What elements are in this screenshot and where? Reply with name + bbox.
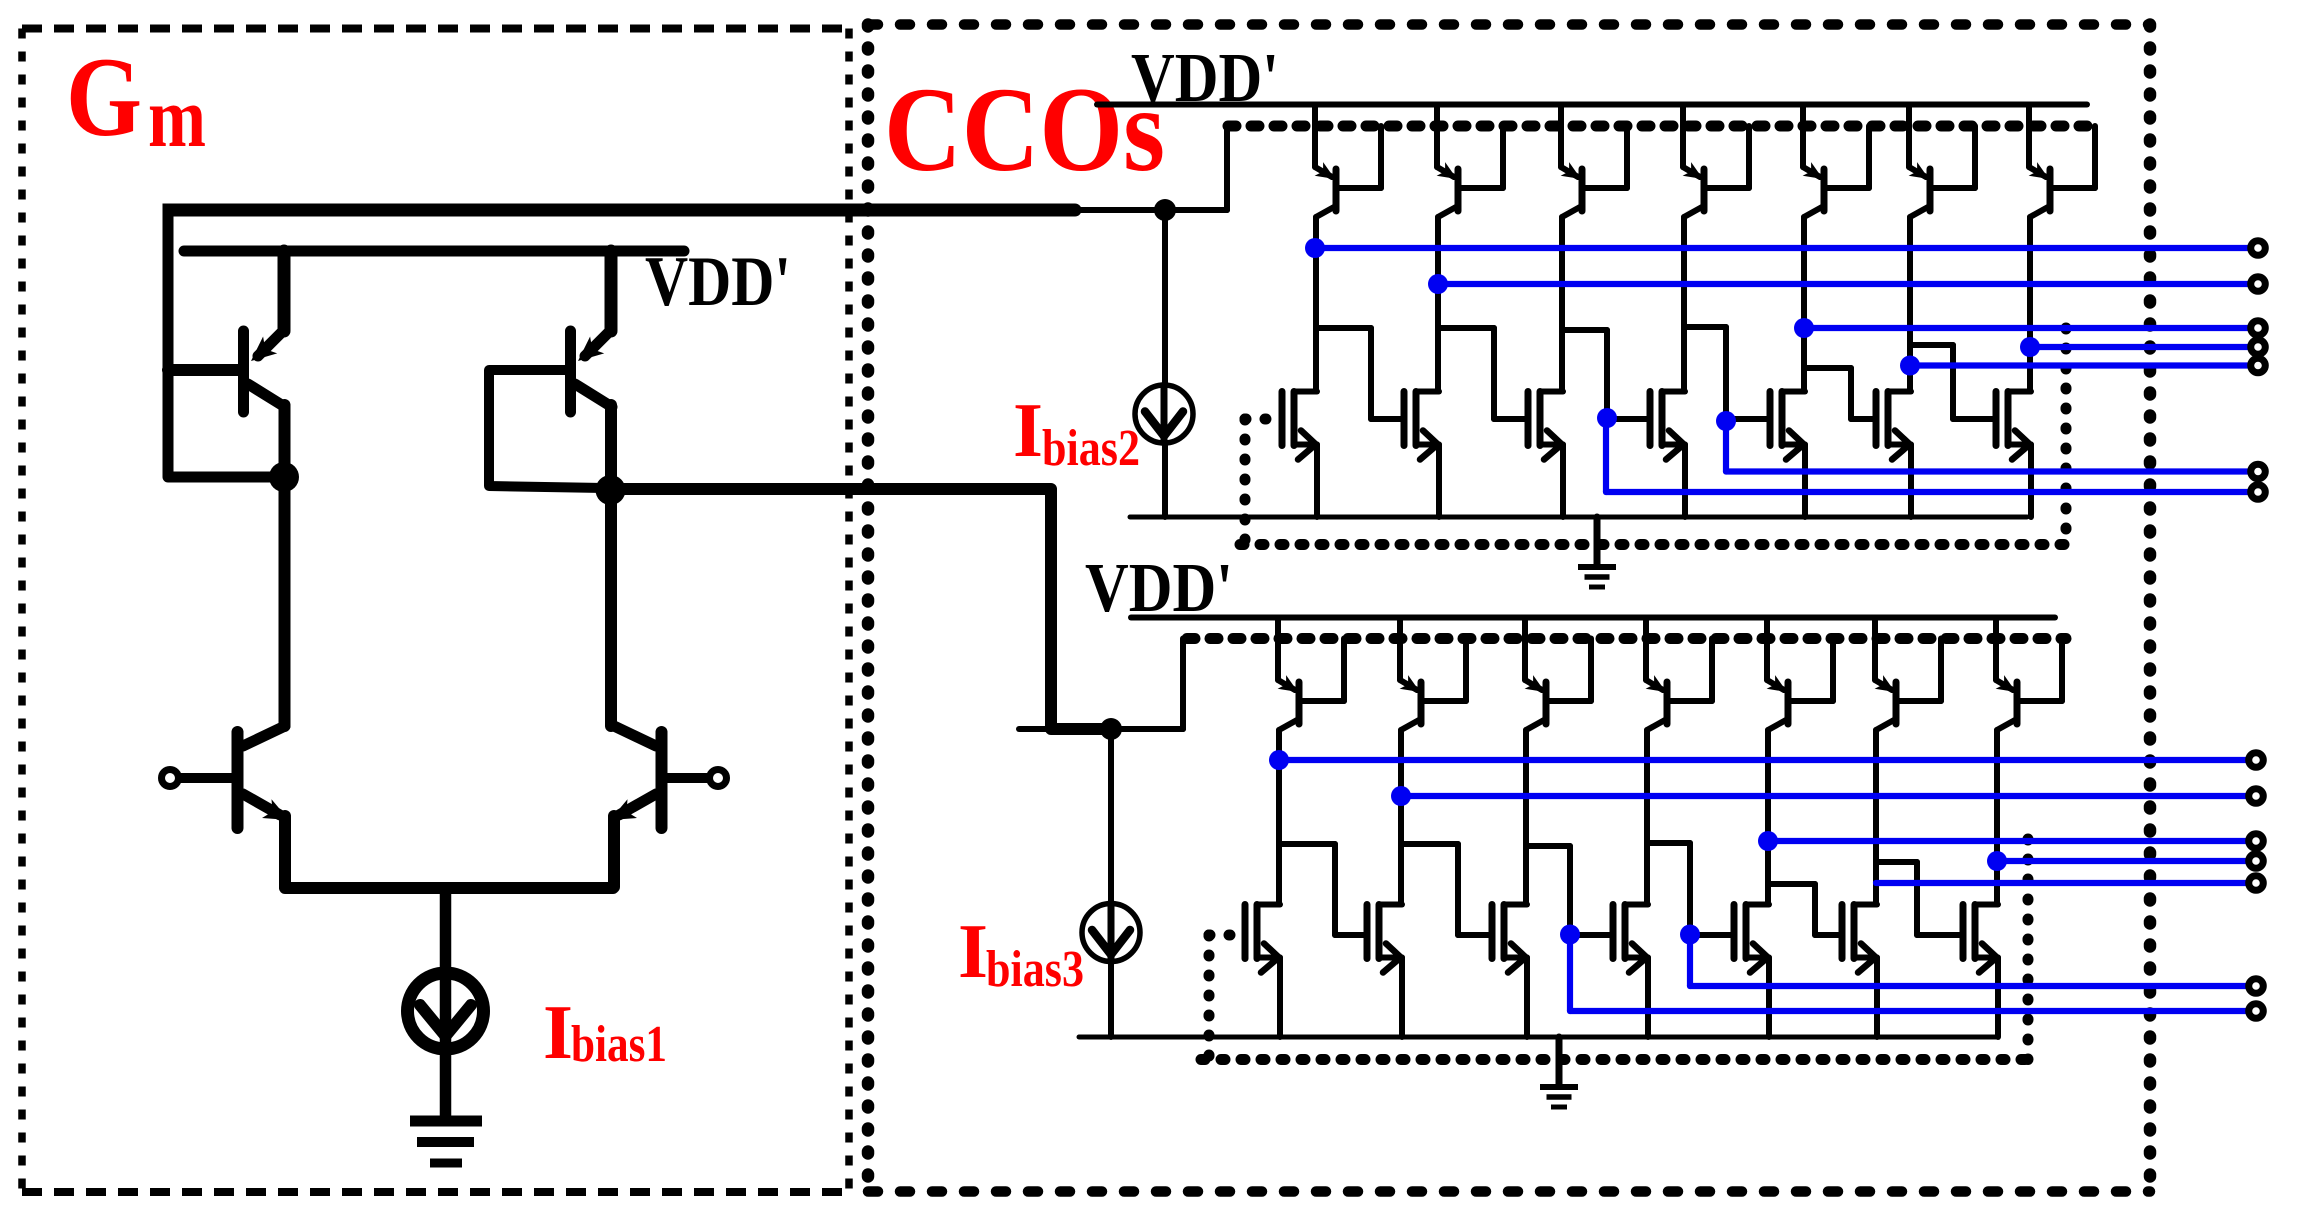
wire output 2 (blue, CCO1) — [1438, 281, 2249, 287]
output terminal 1 (CCO2) — [2249, 753, 2264, 768]
wire output riser (blue, CCO2) — [1687, 935, 1693, 986]
transistor Q2 (PNP, right mirror) — [489, 251, 612, 491]
wire stage 1 output jog (CCO1) — [1316, 328, 1371, 419]
label Ibias2 — [1013, 387, 1140, 477]
transistor PCCO17 (PNP stage 7) — [2029, 105, 2095, 392]
current source Ibias (CCO2) — [1082, 904, 1140, 962]
wire gate link stage 6 (CCO2) — [1815, 932, 1842, 938]
wire node C down to Q4 — [605, 490, 617, 726]
transistor PCCO26 (PNP stage 6) — [1875, 618, 1941, 905]
dashed cell border left (CCO2) — [1204, 935, 1215, 1060]
transistor NCCO11 (NMOS stage 1) — [1282, 392, 1317, 518]
wire gate link stage 4 (CCO1) — [1607, 416, 1650, 422]
wire ground rail (CCO1) — [1130, 515, 2027, 520]
transistor NCCO22 (NMOS stage 2) — [1367, 905, 1402, 1038]
transistor PCCO14 (PNP stage 4) — [1683, 105, 1749, 392]
wire gate link stage 4 (CCO2) — [1570, 932, 1613, 938]
svg-text:CCOs: CCOs — [884, 63, 1165, 197]
transistor Q1 (PNP, left mirror) — [168, 251, 285, 477]
CCOs block dashed box — [868, 25, 2150, 1192]
dashed cell border bottom (CCO2) — [1201, 1054, 2028, 1065]
transistor NCCO14 (NMOS stage 4) — [1650, 392, 1685, 518]
wire output 1 (blue, CCO2) — [1279, 757, 2247, 763]
node tap 1 (blue, CCO1) — [1305, 238, 1325, 258]
input terminal IN- — [710, 770, 727, 787]
svg-text:bias1: bias1 — [571, 1016, 667, 1073]
svg-text:I: I — [958, 908, 988, 994]
wire output 3 (blue, CCO2) — [1768, 838, 2247, 844]
wire VDD rail (Gm) — [184, 246, 684, 257]
svg-text:I: I — [543, 989, 573, 1075]
transistor NCCO12 (NMOS stage 2) — [1404, 392, 1439, 518]
svg-text:bias3: bias3 — [986, 941, 1084, 998]
transistor PCCO23 (PNP stage 3) — [1525, 618, 1591, 905]
wire gate link stage 5 (CCO2) — [1690, 932, 1734, 938]
node B junction (Q1 collector/base) — [269, 462, 299, 492]
wire stage 4 output jog (CCO1) — [1684, 327, 1726, 419]
wire stage 5 output jog (CCO2) — [1768, 884, 1815, 935]
node tap 4 (blue, CCO1) — [1716, 411, 1736, 431]
dashed cell border right (CCO1) — [2061, 328, 2072, 545]
wire common emitter rail — [285, 882, 613, 894]
ground (Gm) — [410, 1121, 482, 1163]
current source Ibias (CCO1) — [1135, 385, 1193, 443]
wire output 6 (blue, CCO1) — [1726, 468, 2249, 474]
dashed stub to first gate (CCO1) — [1245, 414, 1282, 425]
transistor NCCO27 (NMOS stage 7) — [1963, 905, 1998, 1038]
node tap 5 (blue, CCO1) — [1794, 318, 1814, 338]
wire output 1 (blue, CCO1) — [1315, 245, 2249, 251]
output terminal 7 (CCO2) — [2249, 1004, 2264, 1019]
svg-text:m: m — [148, 69, 206, 165]
label Ibias1 — [543, 989, 667, 1075]
node tap 2 (blue, CCO1) — [1428, 274, 1448, 294]
node tap 5 (blue, CCO2) — [1758, 831, 1778, 851]
svg-text:G: G — [66, 35, 142, 160]
input terminal IN+ — [162, 770, 179, 787]
transistor PCCO11 (PNP stage 1) — [1315, 105, 1381, 392]
wire output 7 (blue, CCO1) — [1606, 489, 2249, 495]
wire Ibias feed (CCO1) — [1073, 207, 1227, 213]
output terminal 5 (CCO1) — [2251, 358, 2266, 373]
wire bias rail corner riser (CCO2) — [1180, 639, 1186, 730]
wire gate link stage 7 (CCO2) — [1917, 932, 1963, 938]
wire ground rail (CCO2) — [1079, 1035, 1998, 1040]
transistor Q4 (NPN, diff pair right) — [610, 726, 708, 887]
node tap 7 (blue, CCO1) — [2020, 337, 2040, 357]
wire Ibias drop (CCO1) — [1162, 210, 1168, 517]
output terminal 4 (CCO2) — [2249, 854, 2264, 869]
output terminal 6 (CCO2) — [2249, 979, 2264, 994]
node tap 3 (blue, CCO1) — [1597, 408, 1617, 428]
output terminal 3 (CCO2) — [2249, 834, 2264, 849]
node tap 6 (blue, CCO1) — [1900, 356, 1920, 376]
svg-text:VDD': VDD' — [645, 243, 791, 321]
wire VDD' rail (CCO2) — [1131, 615, 2055, 621]
svg-text:VDD': VDD' — [1085, 550, 1233, 627]
wire thin link Gm to top CCO — [1075, 207, 1227, 213]
dashed cell border bottom (CCO1) — [1240, 539, 2066, 550]
wire node A: Gm output to top CCO — [163, 210, 1076, 477]
wire stage 5 output jog (CCO1) — [1804, 368, 1851, 419]
wire gate link stage 6 (CCO1) — [1851, 416, 1876, 422]
transistor NCCO16 (NMOS stage 6) — [1876, 392, 1911, 518]
transistor NCCO23 (NMOS stage 3) — [1492, 905, 1527, 1038]
output terminal 6 (CCO1) — [2251, 464, 2266, 479]
output terminal 2 (CCO2) — [2249, 789, 2264, 804]
svg-text:VDD': VDD' — [1131, 40, 1279, 117]
ground symbol (CCO1) — [1578, 517, 1616, 587]
transistor Q3 (NPN, diff pair left) — [180, 726, 289, 887]
transistor NCCO13 (NMOS stage 3) — [1528, 392, 1563, 518]
wire gate link stage 5 (CCO1) — [1726, 416, 1770, 422]
output terminal 7 (CCO1) — [2251, 485, 2266, 500]
label Gm — [66, 35, 206, 165]
output terminal 4 (CCO1) — [2251, 340, 2266, 355]
wire bias rail dashed (CCO2) — [1187, 633, 2066, 644]
node tap 3 (blue, CCO2) — [1560, 925, 1580, 945]
node tap 1 (blue, CCO2) — [1269, 750, 1289, 770]
wire bias rail dashed (CCO1) — [1228, 121, 2100, 132]
wire gate link stage 2 (CCO1) — [1371, 416, 1404, 422]
wire gate link stage 2 (CCO2) — [1335, 932, 1367, 938]
transistor PCCO21 (PNP stage 1) — [1278, 618, 1344, 905]
svg-text:I: I — [1013, 387, 1043, 473]
wire output 6 (blue, CCO2) — [1690, 983, 2247, 989]
node tap 2 (blue, CCO2) — [1391, 786, 1411, 806]
transistor PCCO24 (PNP stage 4) — [1646, 618, 1712, 905]
wire output 4 (blue, CCO1) — [2030, 344, 2249, 350]
label Ibias3 — [958, 908, 1084, 998]
wire VDD' rail (CCO1) — [1097, 102, 2087, 108]
wire Ibias drop (CCO2) — [1108, 729, 1114, 1037]
wire output 7 (blue, CCO2) — [1570, 1008, 2247, 1014]
node Ibias junction (CCO2) — [1100, 718, 1122, 740]
wire tail stem — [440, 888, 452, 1120]
wire stage 2 output jog (CCO1) — [1438, 328, 1494, 419]
output terminal 1 (CCO1) — [2251, 241, 2266, 256]
wire stage 4 output jog (CCO2) — [1647, 843, 1690, 935]
wire stage 1 output jog (CCO2) — [1279, 844, 1335, 935]
output terminal 2 (CCO1) — [2251, 277, 2266, 292]
transistor PCCO13 (PNP stage 3) — [1561, 105, 1627, 392]
node tap 4 (blue, CCO2) — [1680, 925, 1700, 945]
wire output 5 (blue, CCO2) — [1876, 880, 2247, 886]
wire stage 2 output jog (CCO2) — [1401, 844, 1458, 935]
wire output 3 (blue, CCO1) — [1804, 325, 2249, 331]
wire output 5 (blue, CCO1) — [1910, 362, 2249, 368]
transistor PCCO22 (PNP stage 2) — [1400, 618, 1466, 905]
output terminal 3 (CCO1) — [2251, 321, 2266, 336]
Gm block dashed box — [22, 29, 849, 1193]
output terminal 5 (CCO2) — [2249, 876, 2264, 891]
wire stage 6 output jog (CCO2) — [1876, 862, 1917, 935]
wire thin link Gm to bottom CCO — [1100, 726, 1183, 732]
transistor PCCO27 (PNP stage 7) — [1996, 618, 2062, 905]
svg-text:bias2: bias2 — [1042, 420, 1140, 477]
current source Ibias1 — [408, 973, 484, 1049]
node Ibias junction (CCO1) — [1154, 199, 1176, 221]
wire stage 3 output jog (CCO2) — [1526, 846, 1570, 935]
wire output riser (blue, CCO2) — [1567, 935, 1573, 1011]
wire node C: Gm output to bottom CCO — [610, 489, 1102, 729]
dashed stub to first gate (CCO2) — [1209, 930, 1245, 941]
transistor NCCO25 (NMOS stage 5) — [1734, 905, 1769, 1038]
transistor PCCO16 (PNP stage 6) — [1909, 105, 1975, 392]
wire gate link stage 3 (CCO1) — [1494, 416, 1528, 422]
node tap 6 (blue, CCO2) — [1987, 851, 2007, 871]
ground symbol (CCO2) — [1540, 1037, 1578, 1107]
wire output 2 (blue, CCO2) — [1401, 793, 2247, 799]
transistor NCCO17 (NMOS stage 7) — [1996, 392, 2031, 518]
wire gate link stage 3 (CCO2) — [1458, 932, 1492, 938]
transistor NCCO21 (NMOS stage 1) — [1245, 905, 1280, 1038]
dashed cell border right (CCO2) — [2023, 839, 2034, 1060]
node C junction (Q2 collector/base) — [596, 475, 626, 505]
transistor PCCO12 (PNP stage 2) — [1437, 105, 1503, 392]
transistor NCCO15 (NMOS stage 5) — [1770, 392, 1805, 518]
wire gate link stage 7 (CCO1) — [1953, 416, 1996, 422]
wire stage 6 output jog (CCO1) — [1910, 345, 1953, 419]
wire output 4 (blue, CCO2) — [1997, 858, 2247, 864]
wire Ibias feed (CCO2) — [1019, 726, 1183, 732]
dashed cell border left (CCO1) — [1240, 419, 1251, 545]
wire stage 3 output jog (CCO1) — [1562, 330, 1607, 419]
wire node B down to Q3 — [279, 477, 291, 726]
transistor PCCO25 (PNP stage 5) — [1767, 618, 1833, 905]
wire bias rail corner riser (CCO1) — [1224, 126, 1230, 210]
wire output riser (blue, CCO1) — [1603, 419, 1609, 492]
transistor NCCO24 (NMOS stage 4) — [1613, 905, 1648, 1038]
transistor PCCO15 (PNP stage 5) — [1803, 105, 1869, 392]
transistor NCCO26 (NMOS stage 6) — [1842, 905, 1877, 1038]
wire output riser (blue, CCO1) — [1723, 421, 1729, 472]
